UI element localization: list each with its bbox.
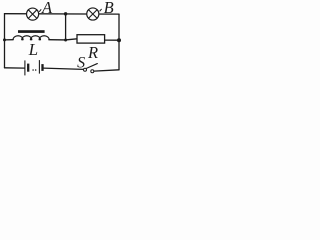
svg-text:A: A — [41, 0, 53, 17]
svg-text:L: L — [28, 40, 38, 59]
svg-text:R: R — [87, 43, 98, 62]
svg-text:B: B — [104, 0, 114, 17]
svg-text:S: S — [77, 55, 85, 72]
